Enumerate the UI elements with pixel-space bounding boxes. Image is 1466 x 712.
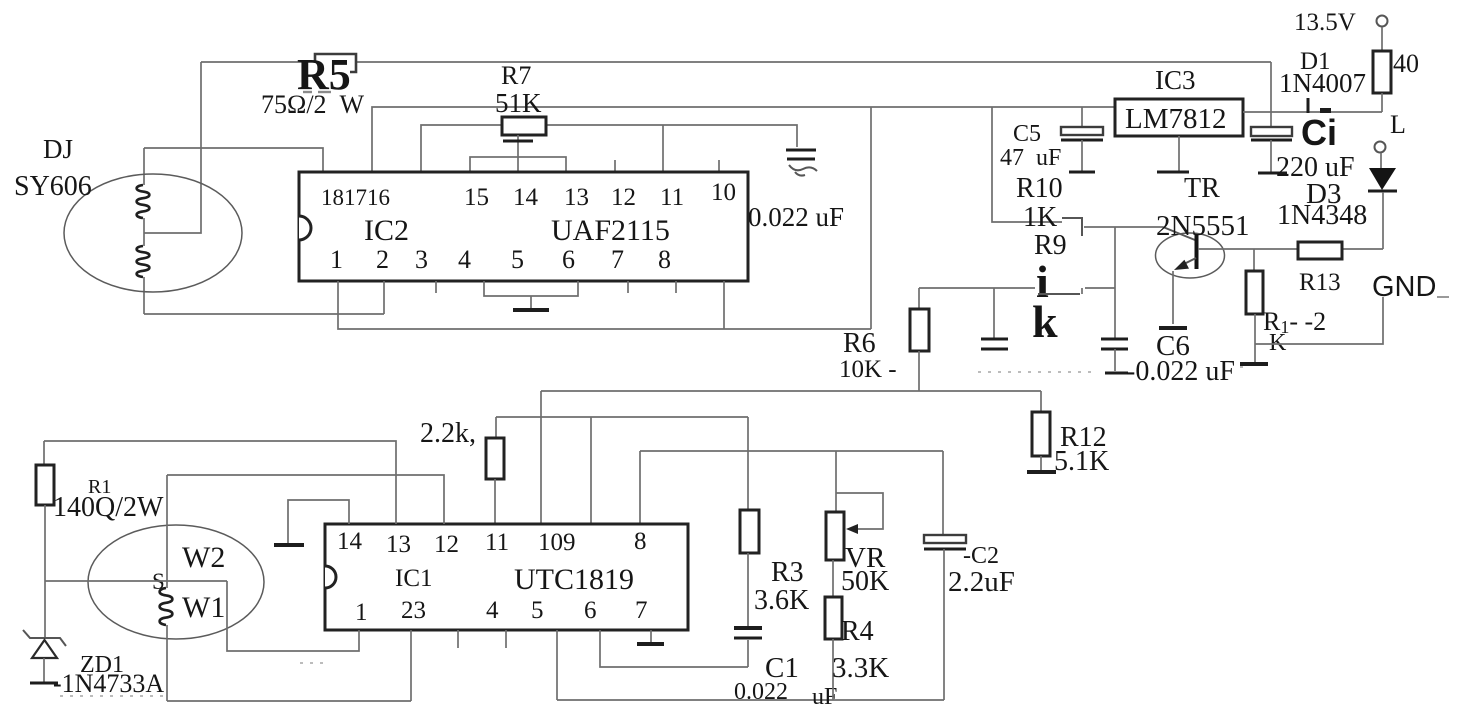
svg-text:IC2: IC2: [364, 214, 409, 247]
wire IC2 pin2 stub: [383, 281, 385, 314]
svg-text:3.3K: 3.3K: [832, 652, 889, 684]
label 1K: [1023, 202, 1057, 233]
label 51K: [495, 88, 542, 118]
svg-text:-1N4733A: -1N4733A: [53, 669, 164, 698]
wire collector y250: [1198, 248, 1383, 250]
svg-text:1: 1: [355, 599, 368, 626]
svg-text:k: k: [1032, 296, 1058, 347]
label 2.2uF: [948, 566, 1015, 598]
svg-text:7: 7: [611, 245, 624, 274]
svg-text:3.6K: 3.6K: [754, 585, 809, 616]
wire R6 bottom rail y391: [541, 390, 1041, 392]
wire C6 riser x1115: [1114, 227, 1116, 338]
label C1: [765, 652, 799, 684]
wire IC2 pin16 to LM7812 input y107: [372, 107, 1115, 172]
ground under R11: [1240, 362, 1268, 366]
scan noise dots: [60, 367, 1250, 696]
wire IC2 pin4-6 ground bracket: [484, 281, 578, 309]
svg-text:W1: W1: [182, 591, 225, 624]
svg-text:14: 14: [513, 184, 539, 211]
svg-text:1N4348: 1N4348: [1277, 200, 1367, 231]
label 40: [1393, 49, 1419, 78]
label -0.022 uF: [1126, 356, 1235, 387]
svg-text:LM7812: LM7812: [1125, 103, 1227, 135]
label IC3: [1155, 65, 1196, 95]
ground bar TR: [1157, 171, 1189, 174]
svg-text:IC3: IC3: [1155, 65, 1196, 95]
wire top supply rail y62: [201, 61, 1271, 63]
capacitor C6: [1101, 339, 1128, 373]
wire IC1 pin4 stubs: [458, 630, 506, 648]
wire DJ bottom to IC2 y314: [144, 313, 384, 315]
resistor R11: [1246, 249, 1263, 363]
svg-text:50K: 50K: [841, 566, 889, 597]
wire pin8 net y451: [640, 451, 943, 535]
svg-text:14: 14: [337, 528, 363, 555]
wire bottom rail y700: [557, 699, 944, 701]
resistor 40: [1373, 51, 1391, 112]
svg-text:R7: R7: [501, 61, 531, 90]
bracket after 1K: [1062, 218, 1082, 236]
svg-text:-0.022 uF: -0.022 uF: [1126, 356, 1235, 387]
wire IC2 bottom rail y329: [338, 314, 871, 329]
capacitor at R6 node: [981, 288, 1008, 349]
label 1N4348: [1277, 200, 1367, 231]
wire DJ left vertical x144: [143, 148, 145, 314]
label UTC1819: [514, 563, 634, 596]
svg-text:140Q/2W: 140Q/2W: [53, 492, 164, 523]
wire IC2 pin1 stub: [337, 281, 339, 314]
svg-text:R13: R13: [1299, 269, 1341, 296]
svg-text:W2: W2: [182, 541, 225, 574]
label R1: [88, 476, 111, 498]
svg-text:R6: R6: [843, 328, 876, 359]
capacitor C5: [1061, 107, 1103, 172]
svg-text:TR: TR: [1184, 173, 1220, 204]
winding resistor W1: [160, 588, 173, 625]
label ZD1: [80, 652, 124, 678]
label R9: [1034, 230, 1067, 261]
diode D1: [1308, 98, 1331, 113]
wire R6 node y288: [919, 288, 1115, 294]
svg-text:11: 11: [485, 529, 509, 556]
wire IC2 pin8 stub: [675, 281, 677, 293]
wire 2.2k net y417: [496, 417, 748, 524]
wire base of Q1 y227: [1084, 227, 1195, 240]
svg-text:C5: C5: [1013, 121, 1041, 147]
wire IC2 top stub pin10: [718, 160, 720, 172]
svg-text:13: 13: [386, 531, 411, 558]
label 2.2k: [420, 418, 476, 449]
svg-text:13: 13: [564, 184, 589, 211]
svg-text:K: K: [1269, 330, 1287, 356]
label R13: [1299, 269, 1341, 296]
svg-text:40: 40: [1393, 49, 1419, 78]
motor DJ SY606: [64, 174, 242, 292]
label UAF2115: [551, 214, 670, 247]
capacitor 0.022uF at IC2: [786, 150, 817, 176]
wire IC1 pin5 to bottom rail: [556, 630, 558, 700]
wire IC2 pin3 stub: [435, 281, 437, 293]
svg-text:23: 23: [401, 597, 426, 624]
label S: [152, 569, 165, 594]
resistor R4: [825, 560, 842, 700]
wire DJ tap vertical x201: [144, 62, 201, 233]
svg-text:R4: R4: [841, 616, 874, 647]
svg-text:5: 5: [531, 597, 544, 624]
label IC1: [395, 565, 433, 592]
svg-text:R3: R3: [771, 557, 804, 588]
svg-text:5.1K: 5.1K: [1054, 446, 1109, 477]
svg-text:4: 4: [486, 597, 499, 624]
transistor Q1 2N5551: [1156, 233, 1225, 328]
svg-text:7: 7: [635, 597, 648, 624]
wire below W1: [166, 625, 168, 701]
potentiometer VR: [826, 493, 883, 560]
svg-text:1: 1: [330, 245, 343, 274]
svg-text:12: 12: [611, 184, 636, 211]
label 2N5551: [1156, 210, 1249, 242]
winding resistor upper in DJ: [137, 185, 150, 218]
svg-text:6: 6: [584, 597, 597, 624]
svg-text:4: 4: [458, 245, 471, 274]
svg-text:3: 3: [415, 245, 428, 274]
svg-text:2.2k,: 2.2k,: [420, 418, 476, 449]
svg-text:6: 6: [562, 245, 575, 274]
label R7: [501, 61, 531, 90]
svg-text:0.022 uF: 0.022 uF: [748, 202, 844, 232]
svg-text:12: 12: [434, 531, 459, 558]
svg-text:47 uF: 47 uF: [1000, 145, 1061, 171]
ground at IC1 pin7: [637, 630, 664, 644]
svg-text:75Ω/2 W: 75Ω/2 W: [261, 90, 365, 119]
svg-text:0.022: 0.022: [734, 679, 788, 705]
wire IC2 pin9 to bottom rail x724: [723, 281, 725, 329]
wire DJ top to IC2 pin18 y148: [144, 148, 323, 172]
terminal 13.5V: [1377, 16, 1388, 52]
wire R10 net from y107: [992, 107, 1062, 222]
label 13.5V: [1294, 9, 1356, 36]
label C6: [1156, 330, 1190, 362]
winding resistor lower in DJ: [137, 246, 150, 277]
wire R1 to IC1 pin13 y441: [44, 441, 396, 524]
svg-text:2N5551: 2N5551: [1156, 210, 1249, 242]
svg-text:2.2uF: 2.2uF: [948, 566, 1015, 598]
svg-text:DJ: DJ: [43, 134, 73, 164]
label 220 uF: [1276, 152, 1355, 183]
svg-text:1N4007: 1N4007: [1279, 68, 1366, 98]
label R6: [843, 328, 876, 359]
label 140Q/2W: [53, 492, 164, 523]
ground under R12: [1027, 470, 1056, 474]
svg-text:L: L: [1390, 110, 1406, 139]
wire R7 net y125: [421, 125, 797, 172]
IC1 UTC1819 body: [325, 524, 688, 630]
label D3: [1306, 178, 1341, 210]
label W2: [182, 541, 225, 574]
label D1: [1300, 48, 1331, 75]
label R5 value: [261, 90, 365, 119]
motor W ellipse: [88, 525, 264, 639]
capacitor C2: [924, 535, 966, 700]
wire IC2 top stub pin12: [614, 160, 616, 172]
wire IC1 pin6 to C1: [600, 630, 748, 667]
resistor R12: [1032, 391, 1050, 471]
svg-text:GND: GND: [1372, 271, 1436, 303]
svg-text:181716: 181716: [321, 185, 390, 210]
resistor R5: [315, 54, 356, 72]
capacitor C1: [734, 628, 762, 667]
wire LM7812 output y112: [1243, 111, 1382, 113]
resistor R13: [1298, 242, 1342, 259]
label 10K: [839, 356, 897, 383]
capacitor 220uF: [1251, 62, 1292, 173]
label SY606: [14, 171, 92, 202]
label 3.3K: [832, 652, 889, 684]
label R5: [297, 50, 351, 99]
resistor R3: [740, 510, 759, 626]
label R4: [841, 616, 874, 647]
resistor R7: [502, 117, 546, 172]
op-amp IC2 UAF2115 body: [299, 172, 748, 281]
label Ci: [1301, 112, 1337, 153]
IC2 top tab: [470, 157, 566, 172]
wire S tap y581: [45, 580, 227, 582]
svg-text:51K: 51K: [495, 88, 542, 118]
svg-text:UAF2115: UAF2115: [551, 214, 670, 247]
label TR: [1184, 173, 1220, 204]
label C5: [1013, 121, 1041, 147]
label 1N4733A: [53, 669, 164, 698]
wire IC1 pin10 riser: [540, 391, 542, 524]
label R10: [1016, 173, 1063, 204]
terminal o above D3: [1375, 142, 1386, 169]
wire bottom left rail y701: [167, 700, 411, 702]
resistor R6: [910, 288, 929, 391]
svg-text:SY606: SY606: [14, 171, 92, 202]
label DJ: [43, 134, 73, 164]
svg-text:UTC1819: UTC1819: [514, 563, 634, 596]
label 3.6K: [754, 585, 809, 616]
label IC1 pins top row: [337, 528, 647, 558]
label R12: [1060, 422, 1107, 453]
label L: [1390, 110, 1406, 139]
label IC2 pins bottom row: [330, 245, 671, 274]
label IC1 pins bottom row: [355, 597, 648, 626]
label i: [1036, 256, 1049, 307]
svg-text:1K: 1K: [1023, 202, 1057, 233]
ground under IC2 pin5: [513, 308, 549, 312]
label 47 uF: [1000, 145, 1061, 171]
label C1 value: [734, 679, 837, 710]
svg-text:10K -: 10K -: [839, 356, 897, 383]
label k: [1032, 296, 1058, 347]
label 0.022 uF: [748, 202, 844, 232]
label IC2: [364, 214, 409, 247]
label VR: [845, 542, 886, 574]
ground bracket at IC1 pin14: [274, 500, 349, 545]
resistor R1: [36, 441, 54, 638]
svg-text:13.5V: 13.5V: [1294, 9, 1356, 36]
wire IC2 pin7 stub: [627, 281, 629, 293]
wire riser x871 y107-y329: [870, 107, 872, 329]
svg-text:8: 8: [658, 245, 671, 274]
R7 lower plate bar: [503, 140, 533, 143]
svg-text:11: 11: [660, 184, 684, 211]
wire wiper vertical x167: [166, 475, 168, 588]
regulator IC3 LM7812: [1115, 99, 1243, 136]
label C2: [963, 543, 999, 569]
svg-text:IC1: IC1: [395, 565, 433, 592]
svg-text:2: 2: [376, 245, 389, 274]
svg-text:15: 15: [464, 184, 489, 211]
wire LM7812 ground pin: [1178, 136, 1180, 171]
svg-text:8: 8: [634, 528, 647, 555]
svg-text:Ci: Ci: [1301, 112, 1337, 153]
label GND: [1372, 271, 1449, 303]
wire IC1 pin23 stub: [410, 630, 412, 701]
label 1N4007: [1279, 68, 1366, 98]
label W1: [182, 591, 225, 624]
label IC2 pins top row: [321, 179, 736, 211]
svg-text:109: 109: [538, 529, 576, 556]
svg-text:R10: R10: [1016, 173, 1063, 204]
resistor 2.2k: [486, 438, 504, 524]
zener ZD1 1N4733A: [23, 630, 66, 683]
label 5.1K: [1054, 446, 1109, 477]
label R11 value: [1263, 307, 1326, 356]
wire S to IC1 pin1: [227, 581, 359, 651]
wire GND branch y344: [1255, 297, 1383, 344]
LED D3: [1368, 168, 1397, 249]
svg-text:5: 5: [511, 245, 524, 274]
label 50K: [841, 566, 889, 597]
wire wiper to IC1 pin12 y475: [167, 475, 444, 524]
label R3: [771, 557, 804, 588]
svg-text:10: 10: [711, 179, 736, 206]
